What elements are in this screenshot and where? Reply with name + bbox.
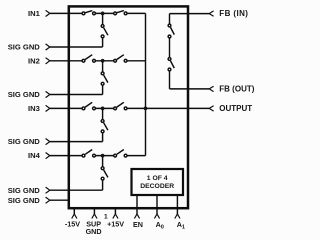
feedback chain upper segment bbox=[169, 14, 171, 25]
IC outline box bbox=[69, 6, 188, 208]
wire IN2 input segment bbox=[50, 60, 82, 62]
shunt switch S1C bbox=[101, 13, 108, 47]
svg-text:GND: GND bbox=[86, 227, 102, 236]
wire IN1 mid segment bbox=[95, 12, 113, 14]
arrow SIG GND bottom bbox=[46, 197, 50, 203]
node ch2 junction bbox=[101, 59, 105, 63]
wire SIG GND ch3 bbox=[50, 141, 103, 143]
wire IN1 input segment bbox=[50, 12, 82, 14]
arrow OUTPUT bbox=[209, 106, 213, 111]
wire IN4 to output bus bbox=[127, 155, 146, 157]
svg-text:SIG GND: SIG GND bbox=[8, 196, 41, 205]
arrow IN3 bbox=[46, 105, 50, 111]
wire IN2 to output bus bbox=[127, 60, 146, 62]
wire OUTPUT bbox=[146, 107, 210, 109]
svg-text:-15V: -15V bbox=[65, 220, 80, 229]
node ch4 junction bbox=[101, 154, 105, 158]
svg-text:A1: A1 bbox=[177, 220, 185, 231]
switch F1 bbox=[168, 24, 174, 38]
arrow pin +15V bbox=[113, 214, 118, 219]
switch S3A bbox=[82, 102, 95, 110]
svg-text:IN2: IN2 bbox=[28, 56, 40, 65]
arrow IN1 bbox=[46, 10, 50, 16]
wire SIG GND ch2 bbox=[50, 94, 103, 96]
switch S2B bbox=[114, 55, 127, 62]
pin A0 bbox=[156, 195, 158, 214]
arrow SIG GND ch1 bbox=[46, 44, 50, 50]
svg-text:FB (OUT): FB (OUT) bbox=[219, 85, 254, 94]
wire IN3 mid segment bbox=[95, 107, 113, 109]
svg-text:IN1: IN1 bbox=[28, 9, 41, 18]
svg-text:OUTPUT: OUTPUT bbox=[219, 104, 252, 113]
switch S1A bbox=[82, 11, 95, 15]
svg-text:IN3: IN3 bbox=[28, 104, 40, 113]
switch F2 bbox=[168, 58, 174, 71]
wire IN3 to output bus bbox=[127, 107, 146, 109]
switch S2A bbox=[82, 55, 95, 62]
wire FB (OUT) bbox=[170, 88, 210, 90]
decoder block U1 bbox=[132, 169, 184, 195]
pin EN bbox=[136, 195, 138, 214]
node ch3 junction bbox=[101, 107, 105, 111]
arrow SIG GND ch3 bbox=[46, 139, 50, 145]
pin SUP GND bbox=[93, 208, 95, 214]
arrow pin EN bbox=[134, 214, 139, 219]
feedback chain lower segment bbox=[169, 71, 171, 89]
svg-text:SIG GND: SIG GND bbox=[8, 186, 41, 195]
wire IN3 input segment bbox=[50, 107, 82, 109]
arrow pin SUP GND bbox=[92, 214, 97, 219]
arrow pin -15V bbox=[72, 214, 77, 219]
wire IN4 input segment bbox=[50, 155, 82, 157]
wire SIG GND bottom stub bbox=[50, 199, 70, 201]
pin +15V bbox=[114, 208, 116, 214]
shunt switch S2C bbox=[101, 61, 108, 95]
wire IN2 mid segment bbox=[95, 60, 113, 62]
arrow IN4 bbox=[46, 153, 50, 159]
switch S1B bbox=[114, 11, 127, 15]
shunt switch S3C bbox=[101, 108, 108, 141]
svg-text:FB (IN): FB (IN) bbox=[219, 9, 248, 18]
switch S4B bbox=[114, 150, 127, 158]
node bus-output bbox=[144, 107, 148, 111]
arrow SIG GND ch4 bbox=[46, 187, 50, 193]
arrow FB (IN) bbox=[209, 11, 213, 16]
wire SIG GND ch1 bbox=[50, 46, 103, 48]
svg-text:+15V: +15V bbox=[107, 220, 124, 229]
pin -15V bbox=[73, 208, 75, 214]
arrow FB (OUT) bbox=[209, 86, 213, 91]
wire IN4 mid segment bbox=[95, 155, 113, 157]
svg-text:A0: A0 bbox=[156, 220, 164, 231]
arrow pin A1 bbox=[175, 214, 180, 219]
svg-text:IN4: IN4 bbox=[28, 151, 41, 160]
svg-text:SIG GND: SIG GND bbox=[8, 43, 41, 52]
switch S3B bbox=[114, 102, 127, 110]
feedback chain mid segment bbox=[169, 38, 171, 58]
arrow SIG GND ch2 bbox=[46, 91, 50, 97]
svg-text:SIG GND: SIG GND bbox=[8, 137, 41, 146]
wire SIG GND ch4 bbox=[50, 189, 103, 191]
arrow IN2 bbox=[46, 58, 50, 64]
wire FB (IN) bbox=[170, 13, 210, 15]
svg-text:SIG GND: SIG GND bbox=[8, 90, 41, 99]
svg-text:EN: EN bbox=[133, 220, 143, 229]
svg-text:DECODER: DECODER bbox=[140, 183, 174, 190]
wire IN1 to output bus bbox=[127, 12, 146, 14]
svg-text:1 OF 4: 1 OF 4 bbox=[147, 175, 168, 182]
switch S4A bbox=[82, 150, 95, 158]
shunt switch S4C bbox=[101, 156, 108, 191]
arrow pin A0 bbox=[154, 214, 159, 219]
node ch1 junction bbox=[101, 12, 105, 16]
pin A1 bbox=[176, 195, 178, 214]
output bus bbox=[145, 13, 147, 155]
